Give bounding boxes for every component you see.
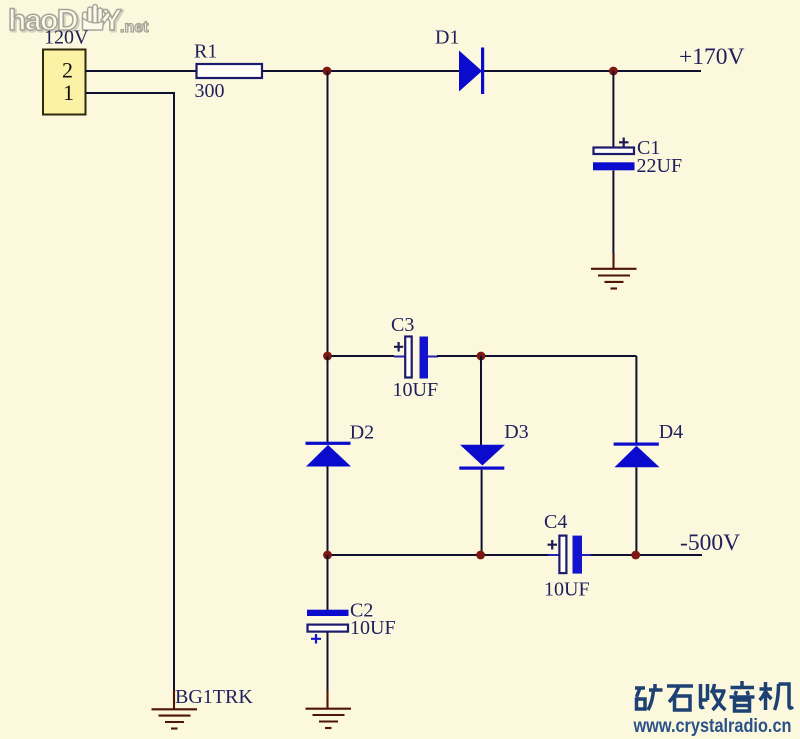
svg-text:+170V: +170V (679, 44, 745, 70)
svg-text:10UF: 10UF (544, 579, 590, 601)
diode D4 (614, 443, 660, 468)
svg-text:300: 300 (195, 80, 225, 102)
wire D1 to +170V rail (484, 70, 701, 72)
diode D2 (306, 442, 352, 467)
ground under BG1TRK wire (152, 690, 198, 729)
wire C2 to ground (327, 632, 329, 692)
svg-text:2: 2 (62, 58, 73, 83)
wire +170V down to C1 (612, 71, 614, 147)
svg-text:D3: D3 (504, 421, 528, 443)
svg-text:D2: D2 (350, 422, 374, 444)
node junction at +170V tap (609, 67, 618, 76)
diode D3 (459, 445, 505, 470)
svg-text:R1: R1 (194, 41, 217, 63)
capacitor C1 (593, 138, 635, 171)
capacitor C2 (307, 610, 349, 644)
node junction C3 right / D3 top (477, 352, 486, 361)
wire D3 top (480, 356, 482, 445)
resistor R1 (197, 64, 263, 78)
node junction at R1/D1 wire (323, 67, 332, 76)
capacitor C4 (548, 536, 593, 574)
wire bottom rail left (328, 554, 549, 556)
wire D2 bottom (327, 467, 329, 556)
svg-text:22UF: 22UF (637, 155, 683, 177)
crystalradio.cn logo: character yin (730, 681, 755, 711)
wire junction down left column (327, 71, 329, 356)
capacitor C3 (394, 337, 438, 379)
wire D4 top (635, 356, 637, 443)
wire C1 to ground (612, 171, 614, 255)
wire bottom rail right (591, 554, 702, 556)
ground under C1 (591, 253, 637, 289)
wire rail down to C2 (327, 555, 329, 610)
svg-text:BG1TRK: BG1TRK (175, 686, 253, 708)
crystalradio.cn logo: character shi (667, 686, 693, 710)
node junction bottom rail / D2 (323, 551, 332, 560)
svg-text:-500V: -500V (680, 530, 740, 556)
wire D4 bottom (635, 467, 637, 555)
wire D3 bottom (481, 470, 483, 555)
svg-text:10UF: 10UF (350, 617, 396, 639)
watermark logo haoDIY.net (8, 4, 149, 39)
svg-text:www.crystalradio.cn: www.crystalradio.cn (633, 716, 792, 737)
node junction bottom rail / D4 (631, 551, 640, 560)
wire R1 to D1 (262, 70, 459, 72)
svg-text:D4: D4 (659, 421, 683, 443)
svg-text:C3: C3 (391, 314, 414, 336)
svg-text:1: 1 (63, 80, 74, 105)
connector J (120V source) (43, 50, 86, 115)
wire D2 top (327, 356, 329, 442)
wire C3 rail left (328, 355, 395, 357)
node junction C3 left (323, 352, 332, 361)
node junction bottom rail / D3 (476, 551, 485, 560)
svg-text:120V: 120V (44, 27, 89, 49)
crystalradio.cn logo: character kuang (635, 684, 663, 710)
ground under C2 (306, 690, 352, 728)
diode D1 (459, 48, 484, 95)
wire pin2 to R1 (86, 70, 197, 72)
crystalradio.cn logo: character ji (760, 682, 794, 710)
svg-text:C4: C4 (544, 511, 567, 533)
svg-text:.net: .net (120, 19, 149, 36)
svg-text:D1: D1 (435, 27, 459, 49)
wire pin1 to left column (86, 93, 175, 692)
crystalradio.cn logo: character shou (701, 684, 726, 710)
svg-text:10UF: 10UF (393, 379, 439, 401)
wire C3 rail right to D4 column (437, 355, 636, 357)
